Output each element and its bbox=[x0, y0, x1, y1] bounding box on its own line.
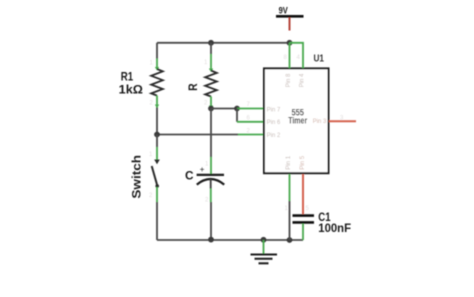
wire: cap C top pin green bbox=[210, 157, 212, 174]
ground stub green bbox=[263, 240, 265, 254]
svg-text:Pin 5: Pin 5 bbox=[299, 155, 306, 169]
wire: pin 4 green jog bbox=[290, 43, 304, 69]
node: junction below R bbox=[208, 106, 214, 112]
svg-text:Pin 7: Pin 7 bbox=[267, 106, 281, 113]
wire: R top pin green bbox=[210, 54, 212, 70]
node: junction battery bbox=[287, 40, 293, 46]
wire: pin 5 red vertical bbox=[302, 174, 304, 214]
switch S1: top pin green bbox=[156, 135, 158, 148]
switch S1: lever bbox=[152, 166, 158, 186]
node: junction pin7 branch bbox=[234, 106, 240, 112]
node: junction R1 bottom / switch bbox=[154, 132, 160, 138]
capacitor C curved plate bbox=[197, 179, 224, 185]
wire: pin 2 green bbox=[238, 134, 264, 136]
wire: bottom rail bbox=[157, 239, 303, 241]
svg-text:Timer: Timer bbox=[288, 115, 307, 125]
wire: trigger rail bbox=[157, 134, 238, 136]
wire: cap C to bottom rail gray bbox=[210, 202, 212, 240]
wire: R1 top pin green bbox=[156, 59, 158, 69]
node: junction cap C bottom bbox=[208, 237, 214, 243]
wire: pin 1 gray to rail bbox=[289, 201, 291, 240]
svg-text:U1: U1 bbox=[314, 54, 325, 65]
svg-text:Pin 2: Pin 2 bbox=[267, 132, 281, 139]
svg-text:R1: R1 bbox=[121, 69, 133, 83]
capacitor C1 top plate bbox=[293, 214, 315, 217]
switch S1: arrow bbox=[154, 160, 160, 165]
wire: down from dot2 bbox=[236, 109, 238, 122]
capacitor C top plate bbox=[197, 174, 224, 176]
svg-text:1kΩ: 1kΩ bbox=[119, 83, 143, 97]
svg-text:Pin 3: Pin 3 bbox=[313, 118, 327, 125]
wire: pin 7 green bbox=[237, 108, 264, 110]
wire: top rail bbox=[157, 42, 290, 44]
node: junction ground bbox=[261, 237, 267, 243]
svg-text:C: C bbox=[185, 169, 194, 183]
wire: R1 top lead gray bbox=[156, 43, 158, 59]
wire: pin 6 green bbox=[237, 121, 264, 123]
wire: pin 1 green vertical bbox=[289, 174, 291, 201]
svg-text:Pin 6: Pin 6 bbox=[267, 119, 281, 126]
node: junction R top bbox=[208, 40, 214, 46]
battery V1 bar bbox=[276, 15, 304, 18]
wire: C1 bottom green bbox=[302, 224, 304, 240]
wire: dot1 to dot2 bbox=[211, 108, 237, 110]
svg-text:Switch: Switch bbox=[130, 155, 144, 199]
node: junction pin1 bottom bbox=[287, 237, 293, 243]
wire: switch to bottom rail gray bbox=[156, 202, 158, 240]
svg-text:Pin 4: Pin 4 bbox=[299, 73, 306, 87]
svg-text:+: + bbox=[200, 165, 205, 174]
wire: R1 bottom lead gray bbox=[156, 108, 158, 135]
ground symbol bbox=[251, 254, 278, 256]
svg-text:R: R bbox=[186, 83, 200, 91]
capacitor C1 bottom plate bbox=[293, 221, 315, 224]
svg-text:100nF: 100nF bbox=[318, 221, 351, 235]
wire: pin 8 green vertical bbox=[289, 43, 291, 69]
wire: R1 bottom pin green bbox=[156, 96, 158, 108]
resistor R1 zigzag bbox=[151, 69, 163, 96]
IC U1 box bbox=[264, 68, 329, 173]
wire: cap C bottom pin green bbox=[210, 189, 212, 203]
svg-text:Pin 1: Pin 1 bbox=[285, 155, 292, 169]
wire: pin 3 red output bbox=[329, 120, 356, 122]
svg-text:Pin 8: Pin 8 bbox=[285, 73, 292, 87]
svg-text:9V: 9V bbox=[279, 5, 289, 15]
switch S1: bottom pin green bbox=[156, 187, 158, 202]
battery V1 positive lead bbox=[289, 18, 291, 31]
switch S1: bottom contact bbox=[155, 184, 159, 188]
wire: R bottom pin green bbox=[210, 97, 212, 109]
wire: R top lead gray bbox=[210, 43, 212, 54]
resistor R zigzag bbox=[205, 71, 217, 97]
wire: R bottom to cap C gray bbox=[210, 109, 212, 158]
